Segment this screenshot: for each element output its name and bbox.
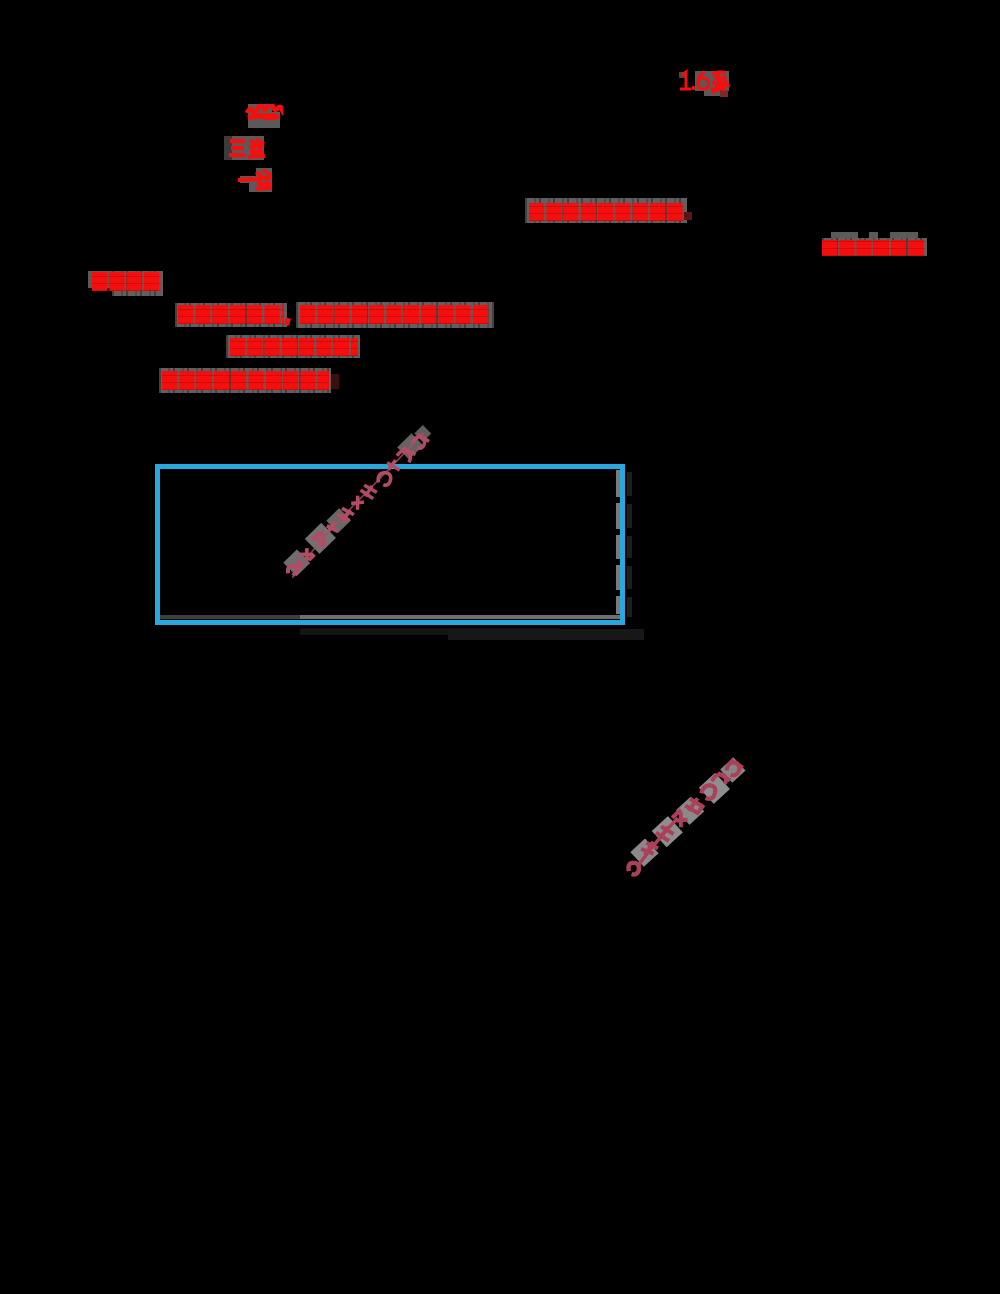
diagonal handwriting 2 (lower right): [620, 753, 753, 877]
red comma after line: [284, 317, 291, 326]
gray horizontal line above bottom edge: [160, 615, 300, 619]
faint dark column right of box: [627, 472, 632, 496]
red 严重表面缺陷, line: [175, 303, 287, 327]
red 有影响工程正常使用检验 line: [296, 302, 494, 328]
red 正常使用: [88, 271, 112, 288]
red scribble row 1: [248, 104, 272, 128]
diagonal handwriting 1 (inside blue box, crossing top edge): [280, 425, 439, 580]
red 一级 row 3: [240, 176, 256, 183]
red 三级 row 2: [224, 136, 232, 160]
red 单位工程质量控制资料 line: [159, 368, 331, 393]
blue rectangle: [155, 464, 625, 625]
annotation group: 1.6改 top right: [679, 72, 686, 78]
red 可重新评为三级. line: [226, 335, 360, 358]
faint marks under box: [300, 628, 560, 635]
gray vertical dashes inside right edge of box: [616, 470, 620, 497]
red 不需要进行重新修补 line: [525, 198, 687, 223]
red 不影响工期约 line: [831, 232, 858, 240]
